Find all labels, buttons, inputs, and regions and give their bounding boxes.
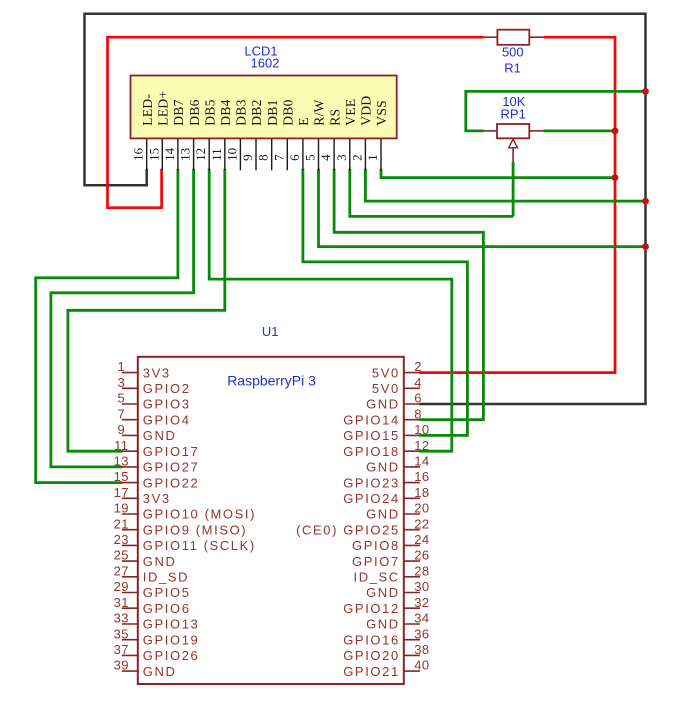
svg-text:27: 27	[114, 563, 129, 578]
svg-text:10: 10	[224, 148, 239, 161]
svg-text:RaspberryPi 3: RaspberryPi 3	[227, 373, 316, 389]
svg-text:DB5: DB5	[202, 99, 217, 125]
svg-text:GPIO3: GPIO3	[143, 397, 191, 412]
svg-text:14: 14	[414, 454, 429, 469]
svg-text:R1: R1	[504, 61, 521, 76]
svg-text:3: 3	[117, 375, 125, 390]
svg-text:DB4: DB4	[218, 99, 233, 125]
svg-text:GPIO4: GPIO4	[143, 412, 191, 427]
svg-text:2: 2	[414, 359, 422, 374]
svg-text:10: 10	[414, 422, 429, 437]
svg-text:7: 7	[271, 154, 286, 161]
svg-text:31: 31	[114, 595, 129, 610]
svg-text:GPIO10 (MOSI): GPIO10 (MOSI)	[143, 507, 256, 522]
svg-text:GPIO19: GPIO19	[143, 632, 200, 647]
svg-text:1: 1	[365, 154, 380, 161]
svg-text:36: 36	[414, 626, 429, 641]
svg-text:40: 40	[414, 658, 429, 673]
svg-text:4: 4	[318, 154, 333, 161]
svg-text:2: 2	[349, 154, 364, 161]
svg-text:GPIO5: GPIO5	[143, 585, 191, 600]
svg-text:37: 37	[114, 642, 129, 657]
svg-text:39: 39	[114, 658, 129, 673]
svg-text:GPIO16: GPIO16	[343, 632, 400, 647]
svg-text:17: 17	[114, 485, 129, 500]
svg-text:33: 33	[114, 611, 129, 626]
svg-text:GPIO22: GPIO22	[143, 475, 200, 490]
svg-text:RP1: RP1	[501, 107, 526, 122]
svg-text:6: 6	[287, 154, 302, 161]
svg-text:GPIO14: GPIO14	[343, 412, 400, 427]
svg-text:RS: RS	[327, 109, 342, 126]
svg-text:VSS: VSS	[374, 100, 389, 126]
svg-text:GPIO20: GPIO20	[343, 648, 400, 663]
svg-text:GPIO13: GPIO13	[143, 617, 200, 632]
svg-text:20: 20	[414, 501, 429, 516]
svg-text:22: 22	[414, 516, 429, 531]
svg-text:DB1: DB1	[265, 99, 280, 125]
svg-text:38: 38	[414, 642, 429, 657]
svg-text:5V0: 5V0	[372, 381, 400, 396]
svg-text:18: 18	[414, 485, 429, 500]
svg-text:15: 15	[114, 469, 129, 484]
svg-text:GND: GND	[143, 664, 177, 679]
svg-text:9: 9	[240, 154, 255, 161]
svg-text:ID_SD: ID_SD	[143, 570, 189, 585]
svg-text:GPIO24: GPIO24	[343, 491, 400, 506]
svg-text:(CE0) GPIO25: (CE0) GPIO25	[296, 522, 400, 537]
svg-text:7: 7	[117, 406, 125, 421]
svg-text:DB2: DB2	[249, 99, 264, 125]
svg-text:GND: GND	[366, 585, 400, 600]
svg-text:GPIO15: GPIO15	[343, 428, 400, 443]
svg-text:U1: U1	[262, 324, 279, 339]
svg-text:21: 21	[114, 516, 129, 531]
svg-text:GPIO18: GPIO18	[343, 444, 400, 459]
svg-text:6: 6	[414, 391, 422, 406]
svg-text:13: 13	[178, 148, 193, 161]
svg-text:3V3: 3V3	[143, 365, 171, 380]
svg-text:1: 1	[117, 359, 125, 374]
svg-text:GPIO23: GPIO23	[343, 475, 400, 490]
svg-text:11: 11	[114, 438, 128, 453]
svg-text:GND: GND	[143, 428, 177, 443]
svg-text:GND: GND	[366, 617, 400, 632]
svg-text:GPIO9 (MISO): GPIO9 (MISO)	[143, 522, 247, 537]
svg-text:GPIO8: GPIO8	[352, 538, 400, 553]
svg-text:500: 500	[502, 45, 524, 60]
svg-text:GPIO2: GPIO2	[143, 381, 191, 396]
svg-text:3V3: 3V3	[143, 491, 171, 506]
svg-text:14: 14	[162, 147, 177, 161]
svg-text:VEE: VEE	[343, 99, 358, 126]
svg-text:29: 29	[114, 579, 129, 594]
svg-text:5V0: 5V0	[372, 365, 400, 380]
svg-text:15: 15	[146, 148, 161, 161]
svg-text:E: E	[296, 117, 311, 126]
svg-text:13: 13	[114, 454, 129, 469]
svg-text:19: 19	[114, 501, 129, 516]
svg-text:GPIO6: GPIO6	[143, 601, 191, 616]
svg-text:8: 8	[414, 406, 422, 421]
svg-text:5: 5	[303, 154, 318, 161]
svg-text:32: 32	[414, 595, 429, 610]
svg-text:DB3: DB3	[234, 99, 249, 125]
svg-text:1602: 1602	[251, 56, 280, 71]
svg-text:12: 12	[414, 438, 429, 453]
svg-text:5: 5	[117, 391, 125, 406]
svg-text:GPIO12: GPIO12	[343, 601, 400, 616]
svg-text:24: 24	[414, 532, 429, 547]
svg-text:DB0: DB0	[281, 99, 296, 125]
svg-text:GND: GND	[143, 554, 177, 569]
svg-text:GND: GND	[366, 397, 400, 412]
svg-text:34: 34	[414, 611, 429, 626]
svg-text:GPIO21: GPIO21	[343, 664, 400, 679]
svg-text:4: 4	[414, 375, 422, 390]
svg-text:GPIO7: GPIO7	[352, 554, 400, 569]
svg-text:DB6: DB6	[187, 99, 202, 125]
svg-text:16: 16	[414, 469, 429, 484]
svg-text:23: 23	[114, 532, 129, 547]
svg-text:25: 25	[114, 548, 129, 563]
svg-text:12: 12	[193, 148, 208, 161]
svg-text:16: 16	[131, 147, 146, 161]
svg-text:30: 30	[414, 579, 429, 594]
svg-text:LED+: LED+	[156, 91, 171, 126]
svg-text:11: 11	[209, 148, 224, 161]
svg-text:LED-: LED-	[140, 94, 155, 126]
svg-text:35: 35	[114, 626, 129, 641]
svg-text:ID_SC: ID_SC	[354, 570, 400, 585]
svg-text:8: 8	[256, 154, 271, 161]
svg-text:GPIO27: GPIO27	[143, 460, 200, 475]
svg-text:DB7: DB7	[171, 99, 186, 125]
svg-text:VDD: VDD	[359, 96, 374, 126]
svg-text:28: 28	[414, 563, 429, 578]
svg-text:GPIO17: GPIO17	[143, 444, 200, 459]
svg-text:GPIO26: GPIO26	[143, 648, 200, 663]
svg-text:GPIO11 (SCLK): GPIO11 (SCLK)	[143, 538, 256, 553]
svg-text:3: 3	[334, 154, 349, 161]
svg-text:26: 26	[414, 548, 429, 563]
svg-text:GND: GND	[366, 507, 400, 522]
svg-text:R/W: R/W	[312, 99, 327, 125]
svg-text:9: 9	[117, 422, 125, 437]
svg-text:GND: GND	[366, 460, 400, 475]
